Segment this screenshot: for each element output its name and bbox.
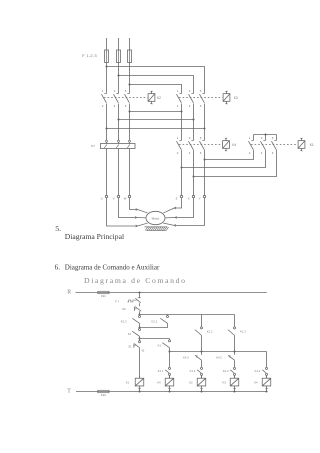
svg-text:F22: F22 [101,393,106,397]
svg-text:F21: F21 [101,294,106,298]
svg-text:Z: Z [176,197,178,201]
svg-text:X: X [188,197,190,201]
svg-text:V: V [113,197,115,201]
svg-text:K1: K1 [126,380,130,384]
svg-text:K2: K2 [157,96,161,100]
svg-text:K4: K4 [232,143,236,147]
svg-text:T: T [67,388,71,394]
svg-text:K3: K3 [234,96,238,100]
svg-text:U: U [101,197,103,201]
svg-text:F7: F7 [91,144,95,148]
svg-text:K1.1: K1.1 [158,369,164,373]
svg-text:R: R [67,289,71,295]
svg-text:K4: K4 [128,332,132,336]
svg-text:S1: S1 [128,345,132,349]
svg-text:6.: 6. [55,263,61,271]
svg-text:Diagrama Principal: Diagrama Principal [65,232,124,241]
svg-text:K4: K4 [157,380,161,384]
svg-text:K1.3: K1.3 [240,330,246,334]
svg-text:W: W [124,197,127,201]
svg-text:K4.2: K4.2 [216,356,222,360]
svg-text:K1: K1 [310,143,314,147]
svg-text:K1.2: K1.2 [207,330,213,334]
svg-text:K1.3: K1.3 [190,369,196,373]
svg-text:K4: K4 [254,380,258,384]
svg-text:Motor: Motor [152,216,160,220]
svg-text:K2.2: K2.2 [151,320,157,324]
svg-text:Diagrama de Comando e Auxiliar: Diagrama de Comando e Auxiliar [65,263,160,271]
svg-text:K2.2: K2.2 [121,320,127,324]
svg-text:5.: 5. [55,224,61,233]
svg-text:K2.3: K2.3 [223,369,229,373]
svg-text:K2: K2 [189,380,193,384]
svg-text:K1: K1 [158,343,162,347]
svg-text:Y: Y [199,197,201,201]
svg-text:Diagrama de Comando: Diagrama de Comando [84,276,187,285]
svg-text:K1.4: K1.4 [255,369,261,373]
svg-text:K4.3: K4.3 [183,356,189,360]
svg-text:F 7: F 7 [115,299,119,303]
svg-text:S0: S0 [122,307,126,311]
svg-text:K3: K3 [222,380,226,384]
svg-text:F 1,2,3: F 1,2,3 [82,53,97,58]
